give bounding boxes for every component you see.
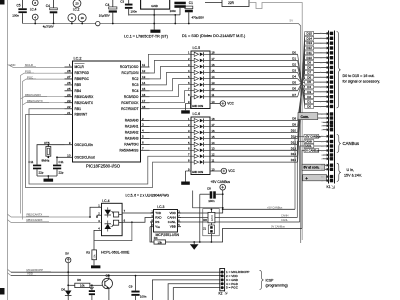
svg-text:10k: 10k bbox=[80, 284, 85, 288]
K1 pin arrow bbox=[327, 154, 330, 157]
pin 1 MCLR bbox=[65, 66, 73, 68]
svg-text:HCPL-063L-000E: HCPL-063L-000E bbox=[101, 250, 130, 254]
wire RB1 to IC6 pin7 bbox=[29, 109, 191, 184]
pin 16 RC5/SDO bbox=[141, 96, 150, 98]
K1 label CANL bbox=[304, 144, 314, 148]
svg-text:RB3/CANRX: RB3/CANRX bbox=[75, 95, 95, 99]
resistor R1 22R bbox=[205, 2, 222, 4]
wire I.C.6 output D13 bbox=[210, 149, 298, 151]
IC3 pin 5 right bbox=[178, 226, 182, 228]
brace U in bbox=[337, 163, 341, 181]
svg-text:RB4: RB4 bbox=[75, 89, 82, 93]
K2 pin 1 = MCLR/RCPP bbox=[221, 271, 224, 274]
svg-text:GND: GND bbox=[151, 4, 159, 8]
svg-text:D6: D6 bbox=[307, 75, 311, 79]
svg-text:D4: D4 bbox=[292, 75, 296, 79]
I.C.5 channel 2 bbox=[191, 59, 194, 61]
svg-text:RA5/AN4/SS: RA5/AN4/SS bbox=[119, 148, 139, 152]
wire PGD to K2 pin4 bbox=[168, 284, 220, 300]
power symbol VCC IC5 bbox=[210, 103, 220, 105]
wire J1 to 0V bbox=[210, 234, 212, 242]
wire under opto bbox=[94, 222, 132, 240]
K2 pin 4 = PGD bbox=[221, 282, 224, 285]
pin 7 output bbox=[122, 212, 153, 214]
svg-text:D15: D15 bbox=[291, 158, 297, 162]
svg-text:(programming): (programming) bbox=[266, 283, 288, 287]
K1 terminal plus bbox=[327, 176, 329, 178]
svg-text:100n: 100n bbox=[131, 10, 138, 14]
svg-text:4µ7/16V: 4µ7/16V bbox=[43, 24, 54, 28]
IC3 pin 1 left bbox=[150, 212, 154, 214]
I.C.6 channel 2 bbox=[191, 126, 194, 128]
svg-text:D1: D1 bbox=[307, 100, 311, 104]
wire PGC to K2 pin5 bbox=[173, 288, 220, 300]
K1 pin D7 bbox=[305, 70, 314, 74]
IC3 pin 3 right bbox=[178, 212, 182, 214]
svg-text:RB5: RB5 bbox=[75, 83, 82, 87]
svg-text:D0: D0 bbox=[292, 50, 296, 54]
svg-text:16: 16 bbox=[142, 93, 146, 97]
terminator group box bbox=[203, 209, 219, 236]
svg-text:RA3/AN3: RA3/AN3 bbox=[125, 137, 139, 141]
svg-text:+5V CANBus: +5V CANBus bbox=[211, 180, 231, 184]
svg-text:TXD: TXD bbox=[155, 211, 162, 215]
IC3 pin 2 left bbox=[150, 226, 154, 228]
wire I.C.5 output D5 bbox=[210, 84, 298, 86]
wire I.C.6 output D9 bbox=[210, 126, 298, 128]
K1 terminal 0V at com bbox=[325, 164, 329, 166]
I.C.6 channel 1 bbox=[191, 120, 194, 122]
K1 terminal Com bbox=[318, 113, 329, 115]
svg-text:RC1/T1OSI: RC1/T1OSI bbox=[121, 71, 138, 75]
IC3 pin 4 left bbox=[150, 217, 154, 219]
svg-text:10k: 10k bbox=[92, 254, 96, 259]
I.C.6 channel 8 bbox=[191, 161, 194, 163]
svg-text:0V CANBus: 0V CANBus bbox=[305, 149, 320, 153]
K1 pin arrow bbox=[327, 32, 330, 35]
svg-text:VCC: VCC bbox=[228, 169, 235, 173]
svg-text:D7: D7 bbox=[292, 93, 296, 97]
svg-text:15V à 24V.: 15V à 24V. bbox=[344, 173, 362, 177]
svg-text:CANL: CANL bbox=[168, 220, 176, 224]
svg-text:D6: D6 bbox=[292, 87, 296, 91]
I.C.5 channel 8 bbox=[191, 96, 194, 98]
IC4 supply pin circles bbox=[32, 0, 38, 6]
wire RC4 to IC5 input 5 bbox=[150, 79, 192, 91]
brace D outputs bbox=[337, 32, 341, 109]
K1 pin arrow bbox=[327, 100, 330, 103]
K1 label CANH bbox=[304, 140, 314, 144]
pin 2 bbox=[97, 215, 102, 217]
wire PGC from pin 27 to bus bbox=[23, 79, 73, 219]
wire VSS down bbox=[150, 227, 152, 242]
svg-text:100n: 100n bbox=[140, 294, 147, 298]
svg-text:RB2/CANTX: RB2/CANTX bbox=[75, 101, 94, 105]
K1 pin D10 bbox=[305, 56, 314, 60]
ground triangle bbox=[193, 242, 195, 244]
svg-text:CANH: CANH bbox=[305, 140, 313, 144]
wire RA0 to IC6 input 1 bbox=[150, 120, 192, 122]
wire RC3 to IC5 input 4 bbox=[150, 73, 192, 85]
svg-text:C11: C11 bbox=[59, 160, 64, 164]
K1 pin arrow bbox=[327, 128, 330, 131]
wire RB2/CANTX from pin 23 to bus bbox=[23, 103, 73, 105]
I.C.5 channel 6 bbox=[191, 84, 194, 86]
detector channel 1 bbox=[113, 212, 118, 217]
wire RB0/INT to IC6 pin8 bbox=[26, 115, 192, 188]
K1 pin arrow bbox=[327, 175, 330, 178]
svg-text:24: 24 bbox=[67, 93, 71, 97]
svg-text:D7: D7 bbox=[307, 70, 311, 74]
svg-text:10k: 10k bbox=[157, 240, 162, 244]
svg-text:RC7/RX/DT: RC7/RX/DT bbox=[121, 107, 138, 111]
svg-text:100n: 100n bbox=[208, 199, 215, 203]
K1 pin arrow bbox=[327, 164, 330, 167]
pin 18 RC7/RX/DT bbox=[141, 108, 150, 110]
svg-text:D10: D10 bbox=[291, 128, 297, 132]
svg-text:D10: D10 bbox=[306, 56, 312, 60]
pin 15 RC4 bbox=[141, 90, 150, 92]
svg-text:10: 10 bbox=[67, 154, 71, 158]
wire RA3 to IC6 input 4 bbox=[150, 137, 192, 139]
wire RA4 to IC6 input 5 bbox=[150, 143, 192, 145]
svg-text:28: 28 bbox=[67, 69, 71, 73]
pin 6 output bbox=[122, 221, 132, 223]
K1 pin arrow bbox=[327, 85, 330, 88]
wire I.C.5 output D2 bbox=[210, 66, 298, 68]
svg-text:100n: 100n bbox=[12, 14, 19, 18]
svg-text:I.C.3: I.C.3 bbox=[157, 205, 164, 209]
svg-text:CANL: CANL bbox=[281, 218, 288, 222]
K1 pin arrow bbox=[327, 56, 330, 59]
K1 pin arrow bbox=[327, 71, 330, 74]
I.C.6 pin 9 GND COM bbox=[185, 170, 191, 172]
wire I.C.6 output D10 bbox=[210, 131, 298, 133]
svg-text:I.C.2: I.C.2 bbox=[74, 56, 82, 60]
svg-text:+: + bbox=[305, 176, 308, 181]
svg-text:D8: D8 bbox=[292, 117, 296, 121]
svg-text:MCLR: MCLR bbox=[75, 65, 85, 69]
pin 3 RA1/AN1 bbox=[141, 126, 150, 128]
svg-text:D3: D3 bbox=[292, 69, 296, 73]
K1 pin arrow bbox=[327, 90, 330, 93]
svg-text:VCC: VCC bbox=[227, 102, 234, 106]
K1 pin D11 bbox=[305, 51, 314, 55]
wire I.C.5 output D1 bbox=[210, 59, 298, 61]
svg-text:C5: C5 bbox=[17, 3, 21, 7]
K1 pin n.c. bbox=[323, 125, 329, 127]
svg-text:RB7/PGD: RB7/PGD bbox=[75, 71, 90, 75]
svg-text:D5: D5 bbox=[292, 81, 296, 85]
svg-text:D2: D2 bbox=[307, 95, 311, 99]
svg-text:VDD: VDD bbox=[10, 63, 16, 67]
svg-text:K2: K2 bbox=[219, 292, 223, 296]
svg-text:Com.: Com. bbox=[301, 115, 310, 119]
K1 pin arrow bbox=[327, 117, 330, 120]
wire RS to R4 bbox=[150, 222, 154, 242]
regulator IC1 L7805 bbox=[141, 0, 170, 9]
pin 4 bbox=[94, 230, 102, 250]
K1 pin arrow bbox=[327, 47, 330, 50]
svg-text:D14: D14 bbox=[291, 152, 297, 156]
svg-text:D4: D4 bbox=[307, 85, 311, 89]
K1 pin arrow bbox=[327, 135, 330, 138]
svg-text:22: 22 bbox=[67, 105, 71, 109]
svg-text:RA2/AN2: RA2/AN2 bbox=[125, 131, 139, 135]
svg-text:RS: RS bbox=[155, 220, 159, 224]
K1 pin D6 bbox=[305, 75, 314, 79]
I.C.5 channel 5 bbox=[191, 78, 194, 80]
K1 pin D15 bbox=[305, 32, 314, 36]
ground IC5 bbox=[184, 104, 186, 111]
svg-text:R3: R3 bbox=[86, 251, 90, 255]
wire RC7 to IC5 input 8 bbox=[150, 97, 192, 109]
svg-text:12: 12 bbox=[142, 69, 146, 73]
I.C.5 channel 3 bbox=[191, 66, 194, 68]
wire RB3/CANRX lower bbox=[8, 220, 12, 223]
pin 27 RB6/PGC bbox=[65, 78, 73, 80]
svg-text:D9: D9 bbox=[307, 61, 311, 65]
K1 pin D12 bbox=[305, 46, 314, 50]
K1 pin D1 bbox=[305, 100, 314, 104]
svg-text:D3: D3 bbox=[307, 90, 311, 94]
svg-text:15: 15 bbox=[142, 87, 146, 91]
svg-text:for signal or accessory.: for signal or accessory. bbox=[343, 80, 381, 84]
svg-text:CANH: CANH bbox=[281, 214, 288, 218]
K2 pin 5 = PGC bbox=[221, 286, 224, 289]
K1 pin D8 bbox=[305, 66, 314, 70]
wire I.C.5 output D4 bbox=[210, 78, 298, 80]
svg-text:+5V CANBus: +5V CANBus bbox=[267, 205, 283, 209]
svg-text:R8: R8 bbox=[203, 218, 207, 222]
svg-text:D0: D0 bbox=[307, 105, 311, 109]
svg-text:RXD: RXD bbox=[155, 216, 162, 220]
wire RC2 to IC5 input 3 bbox=[150, 67, 192, 79]
svg-text:RC3: RC3 bbox=[132, 83, 139, 87]
K1 pin arrow bbox=[327, 145, 330, 148]
svg-text:RC5/SDO: RC5/SDO bbox=[124, 95, 139, 99]
svg-text:D14: D14 bbox=[306, 36, 312, 40]
IC3 pin 8 left bbox=[150, 221, 154, 223]
svg-text:R6: R6 bbox=[77, 278, 81, 282]
LED channel 1 bbox=[105, 210, 112, 215]
svg-text:D8: D8 bbox=[307, 66, 311, 70]
I.C.5 pin 9 GND COM bbox=[185, 103, 191, 105]
wire RA2 to IC6 input 3 bbox=[150, 131, 192, 133]
wire 0V CANBus riser bbox=[302, 151, 328, 229]
pin 10 OSC2/CLKout bbox=[57, 156, 73, 158]
wire oscillator gnd bbox=[37, 175, 57, 177]
pin 22 RB1 bbox=[65, 108, 73, 110]
svg-text:22p: 22p bbox=[39, 171, 44, 175]
K1 pin D13 bbox=[305, 41, 314, 45]
K1 pin D14 bbox=[305, 36, 314, 40]
pin 5 RA3/AN3 bbox=[141, 137, 150, 139]
wire 5V feed to right edge bbox=[249, 3, 302, 241]
svg-text:C4: C4 bbox=[105, 3, 109, 7]
pin 9 OSC1/CLKin bbox=[65, 144, 73, 146]
IC3 pin 6 right bbox=[178, 221, 182, 223]
wire I.C.5 output D3 bbox=[210, 72, 298, 74]
svg-text:D5: D5 bbox=[307, 80, 311, 84]
svg-text:+5V CANBus: +5V CANBus bbox=[305, 134, 322, 138]
K1 pin arrow bbox=[327, 179, 330, 182]
wire RA5 to IC6 input 6 bbox=[150, 149, 192, 151]
svg-text:CANH: CANH bbox=[167, 216, 176, 220]
wire I.C.5 output D0 bbox=[210, 53, 298, 55]
svg-text:RB0/INT: RB0/INT bbox=[75, 113, 88, 117]
wire D6 R6 branch bbox=[67, 272, 69, 290]
K1 pin D5 bbox=[305, 80, 314, 84]
svg-text:GND COM: GND COM bbox=[192, 106, 203, 108]
wire I.C.5 output D6 bbox=[210, 90, 298, 92]
detector channel 2 bbox=[113, 220, 118, 225]
K1 pin arrow bbox=[327, 61, 330, 64]
svg-text:MCP2551-I/SN: MCP2551-I/SN bbox=[156, 233, 180, 237]
pin 4 RA2/AN2 bbox=[141, 131, 150, 133]
svg-text:RA0/AN0: RA0/AN0 bbox=[125, 119, 139, 123]
wire CANH to K1 bbox=[178, 217, 298, 219]
svg-text:I.C.4: I.C.4 bbox=[30, 8, 37, 12]
pin 28 RB7/PGD bbox=[65, 72, 73, 74]
pin 11 RC0/T1OSO bbox=[141, 66, 150, 68]
svg-text:I.C.2: I.C.2 bbox=[73, 8, 80, 12]
K1 pin arrow bbox=[327, 95, 330, 98]
K1 pin n.c. bbox=[323, 158, 329, 160]
net bus VDD (left vertical) bbox=[7, 0, 9, 300]
K1 pin arrow bbox=[327, 121, 330, 124]
svg-text:D0 to D15 = 16 out.: D0 to D15 = 16 out. bbox=[343, 74, 375, 78]
wire I.C.6 output D8 bbox=[210, 120, 298, 122]
pin 6 RA4/T0KI bbox=[141, 143, 150, 145]
pin 7 RA5/AN4/SS bbox=[141, 149, 150, 151]
I.C.6 channel 7 bbox=[191, 155, 194, 157]
svg-text:25: 25 bbox=[67, 87, 71, 91]
wire I.C.6 output D12 bbox=[210, 143, 298, 145]
wire RA1 to IC6 input 2 bbox=[150, 126, 192, 128]
K1 pin arrow bbox=[327, 105, 330, 108]
svg-text:D6: D6 bbox=[61, 287, 65, 291]
I.C.5 channel 1 bbox=[191, 53, 194, 55]
svg-text:C1: C1 bbox=[189, 1, 193, 5]
resistor R8 terminator bbox=[210, 209, 212, 212]
svg-text:I.C.5: I.C.5 bbox=[193, 46, 201, 50]
ground IC6 bbox=[184, 171, 186, 182]
svg-text:OSC2/CLKout: OSC2/CLKout bbox=[75, 155, 95, 159]
svg-text:RB1: RB1 bbox=[75, 107, 82, 111]
svg-text:D12: D12 bbox=[291, 140, 297, 144]
svg-text:14: 14 bbox=[142, 81, 146, 85]
brace ICSP bbox=[260, 270, 264, 289]
LED channel 2 bbox=[105, 224, 112, 229]
I.C.6 channel 3 bbox=[191, 131, 194, 133]
svg-text:21: 21 bbox=[67, 111, 71, 115]
K1 pin arrow bbox=[327, 76, 330, 79]
wire crossing bundle D0-D15 bbox=[298, 54, 305, 106]
K1 pin D2 bbox=[305, 95, 314, 99]
svg-text:RC2: RC2 bbox=[132, 77, 139, 81]
svg-text:RC4: RC4 bbox=[132, 89, 139, 93]
crop mark top-left bbox=[0, 0, 5, 5]
wire RC1 to IC5 input 2 bbox=[150, 60, 192, 73]
svg-text:J1: J1 bbox=[203, 227, 207, 231]
svg-text:D9: D9 bbox=[292, 123, 296, 127]
K1 pin D4 bbox=[305, 85, 314, 89]
svg-text:22p: 22p bbox=[59, 171, 64, 175]
pin 1 bbox=[90, 207, 102, 217]
svg-text:U in,: U in, bbox=[347, 168, 355, 172]
K2 pin 2 = VDD bbox=[221, 274, 224, 277]
svg-text:D1: D1 bbox=[292, 56, 296, 60]
K1 label +5V CANBus bbox=[304, 134, 319, 138]
wire I.C.6 output D15 bbox=[210, 161, 298, 163]
K1 pin arrow bbox=[327, 113, 330, 116]
K1 pin arrow bbox=[327, 51, 330, 54]
pin 14 RC3 bbox=[141, 84, 150, 86]
wire VDD riser bbox=[178, 194, 223, 213]
K1 pin arrow bbox=[327, 42, 330, 45]
crop mark bottom-left bbox=[0, 288, 5, 295]
wire RC5 to IC5 input 6 bbox=[150, 85, 192, 97]
wire MCLR/RCPP bbox=[8, 269, 12, 272]
wire +5V CANBus to K1 bbox=[223, 208, 295, 210]
svg-text:PIC18F2580-I/SO: PIC18F2580-I/SO bbox=[86, 163, 121, 168]
connector K2 bbox=[220, 269, 225, 291]
svg-text:OSC1/CLKin: OSC1/CLKin bbox=[75, 143, 93, 147]
I.C.6 channel 6 bbox=[191, 149, 194, 151]
pin 12 RC1/T1OSI bbox=[141, 72, 150, 74]
svg-text:RB6/PGC: RB6/PGC bbox=[75, 77, 90, 81]
IC3 pin 7 right bbox=[178, 217, 182, 219]
wire C8 left to 0V net bbox=[199, 194, 201, 242]
svg-text:ICSP: ICSP bbox=[266, 279, 275, 283]
pin 2 RA0/AN0 bbox=[141, 120, 150, 122]
svg-text:D15: D15 bbox=[306, 32, 312, 36]
wire I.C.5 output D7 bbox=[210, 96, 298, 98]
svg-text:RC0/T1OSO: RC0/T1OSO bbox=[120, 65, 139, 69]
I.C.6 channel 5 bbox=[191, 143, 194, 145]
svg-text:VDD: VDD bbox=[169, 211, 176, 215]
pin 17 RC6/TX/CK bbox=[141, 102, 150, 104]
svg-text:CANL: CANL bbox=[305, 144, 313, 148]
wire I.C.6 output D11 bbox=[210, 137, 298, 139]
K1 pin n.c. bbox=[323, 129, 329, 131]
IC2 supply pin circles bbox=[73, 0, 81, 7]
K1 pin D9 bbox=[305, 61, 314, 65]
wire MCLR stub from bus bbox=[8, 65, 73, 68]
svg-text:D11: D11 bbox=[307, 51, 313, 55]
I.C.6 channel 4 bbox=[191, 137, 194, 139]
ground bar oscillator bbox=[44, 179, 54, 182]
wire RC6 to IC5 input 7 bbox=[150, 91, 192, 103]
wire 0V rail bbox=[23, 24, 301, 244]
svg-text:27: 27 bbox=[67, 75, 71, 79]
svg-text:5V: 5V bbox=[290, 18, 294, 22]
wire GND to K2 pin3 bbox=[152, 280, 219, 300]
svg-text:D12: D12 bbox=[306, 46, 312, 50]
K1 pin arrow bbox=[327, 168, 330, 171]
svg-text:13: 13 bbox=[142, 75, 146, 79]
K1 label 0V CANBus bbox=[304, 149, 319, 153]
K1 pin arrow bbox=[327, 66, 330, 69]
wire RB2/CANTX lower bbox=[8, 214, 12, 217]
svg-text:23: 23 bbox=[67, 99, 71, 103]
K1 pin arrow bbox=[327, 149, 330, 152]
svg-text:18: 18 bbox=[142, 105, 146, 109]
K1 pin D3 bbox=[305, 90, 314, 94]
svg-text:RA4/T0KI: RA4/T0KI bbox=[124, 143, 138, 147]
K1 pin arrow bbox=[327, 81, 330, 84]
